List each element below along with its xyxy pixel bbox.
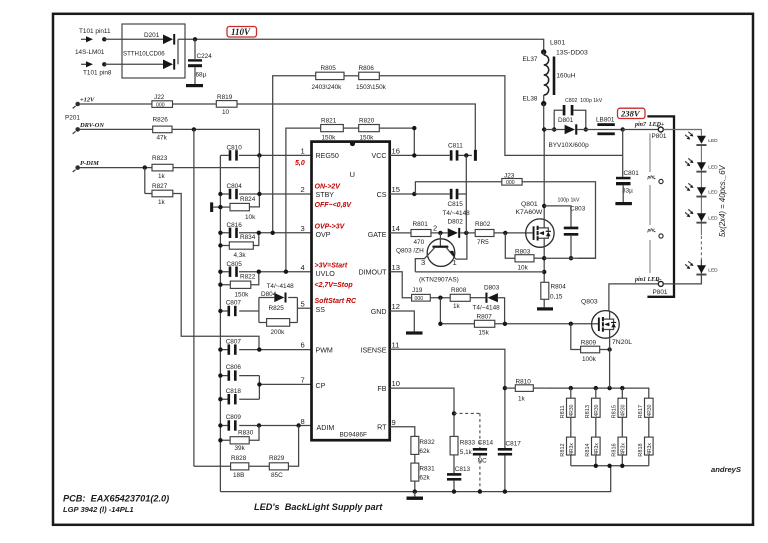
node EL38 bbox=[541, 101, 546, 106]
svg-text:R822: R822 bbox=[240, 273, 256, 280]
svg-text:1k: 1k bbox=[158, 173, 166, 180]
svg-text:12: 12 bbox=[392, 302, 400, 311]
svg-text:(KTN2907AS): (KTN2907AS) bbox=[419, 277, 459, 284]
svg-text:110V: 110V bbox=[231, 27, 251, 37]
svg-text:D803: D803 bbox=[484, 285, 500, 292]
resistor R804 bbox=[541, 282, 566, 300]
svg-text:C817: C817 bbox=[506, 440, 522, 447]
wire 110V rail bbox=[178, 39, 544, 52]
node EL37 bbox=[541, 49, 546, 54]
svg-text:1: 1 bbox=[301, 147, 305, 156]
svg-text:R830: R830 bbox=[238, 429, 254, 436]
capacitor C817 bbox=[498, 440, 521, 455]
wire SS pin bbox=[297, 307, 311, 309]
pin 5 SS bbox=[301, 299, 326, 313]
svg-text:STTH10LCD06: STTH10LCD06 bbox=[123, 51, 165, 58]
svg-text:NC: NC bbox=[478, 458, 488, 465]
svg-text:+12V: +12V bbox=[80, 97, 95, 104]
svg-text:2403\240k: 2403\240k bbox=[312, 84, 343, 91]
svg-text:T101 pin8: T101 pin8 bbox=[83, 70, 112, 77]
wire C806-C818 vertical bbox=[258, 376, 260, 400]
svg-text:C807: C807 bbox=[226, 300, 242, 307]
pin 13 DIMOUT bbox=[359, 263, 400, 277]
node R820 corner bbox=[412, 126, 416, 130]
svg-text:R827: R827 bbox=[152, 183, 168, 190]
svg-text:2: 2 bbox=[433, 224, 437, 233]
diode D802 bbox=[448, 218, 476, 238]
svg-text:Q803: Q803 bbox=[581, 299, 598, 306]
resistor R828 bbox=[194, 455, 249, 479]
capacitor plate +12V bbox=[474, 150, 477, 161]
node bottom center bbox=[607, 464, 611, 468]
svg-text:5,0: 5,0 bbox=[295, 160, 305, 167]
svg-text:150k: 150k bbox=[360, 134, 375, 141]
node source C803 bbox=[569, 256, 573, 260]
svg-text:K7A60W: K7A60W bbox=[516, 209, 543, 216]
svg-text:R801: R801 bbox=[413, 221, 429, 228]
node rail C817 bbox=[503, 489, 507, 493]
resistor R802 bbox=[475, 221, 494, 246]
svg-text:LED's BackLight Supply part: LED's BackLight Supply part bbox=[254, 502, 383, 512]
capacitor C811 bbox=[448, 143, 472, 161]
resistor R815 bbox=[612, 388, 627, 418]
P801 pin7 contact bbox=[657, 125, 664, 132]
svg-text:LED: LED bbox=[708, 138, 718, 144]
svg-text:RT: RT bbox=[377, 423, 387, 431]
svg-text:4R3x: 4R3x bbox=[594, 443, 600, 455]
svg-text:D801: D801 bbox=[558, 117, 574, 124]
svg-text:R807: R807 bbox=[477, 314, 493, 321]
contact mid2 bbox=[659, 234, 663, 238]
wire SS combo bars bbox=[259, 298, 298, 323]
wire R808 to D803 bbox=[470, 297, 485, 299]
svg-text:9: 9 bbox=[392, 418, 396, 427]
svg-text:STBY: STBY bbox=[316, 191, 335, 199]
svg-text:100k: 100k bbox=[582, 356, 597, 363]
diode D201 lower bbox=[163, 59, 175, 70]
svg-text:FB: FB bbox=[377, 385, 386, 393]
node Q803ZH base bbox=[438, 231, 442, 235]
svg-text:R820: R820 bbox=[359, 117, 375, 124]
svg-text:EL37: EL37 bbox=[523, 56, 538, 63]
svg-text:R823: R823 bbox=[152, 155, 168, 162]
svg-text:4R30: 4R30 bbox=[620, 404, 626, 416]
ground rail bbox=[220, 466, 610, 492]
ground bus vertical bbox=[219, 155, 221, 491]
svg-text:R825: R825 bbox=[269, 305, 285, 312]
svg-text:R813: R813 bbox=[585, 405, 591, 418]
resistor R824 bbox=[218, 196, 256, 221]
svg-text:R829: R829 bbox=[269, 455, 285, 462]
resistor R821 bbox=[321, 117, 344, 141]
capacitor C818 bbox=[218, 388, 259, 405]
node STBY bbox=[257, 192, 261, 196]
wire R807 to Q803 gate bbox=[495, 323, 592, 325]
svg-text:R821: R821 bbox=[321, 117, 337, 124]
capacitor C814 NC dashed bbox=[454, 413, 494, 491]
svg-text:OFF~<0,8V: OFF~<0,8V bbox=[315, 202, 353, 209]
node R810 isense bbox=[503, 386, 507, 390]
wire grid bottom rail bbox=[571, 465, 649, 467]
LED chain dashed part bbox=[700, 236, 702, 260]
svg-text:150k: 150k bbox=[322, 134, 337, 141]
wire ISENSE row bbox=[390, 349, 505, 491]
node emitter row bbox=[542, 270, 546, 274]
svg-text:1k: 1k bbox=[453, 303, 461, 310]
svg-text:8: 8 bbox=[301, 417, 305, 426]
ground symbol rail bbox=[407, 492, 424, 500]
svg-text:4: 4 bbox=[301, 263, 305, 272]
svg-text:10k: 10k bbox=[518, 265, 529, 272]
node grid c1 bbox=[569, 386, 573, 390]
node source row bbox=[542, 256, 546, 260]
wire R821-R820 bbox=[343, 127, 358, 129]
node OVP bbox=[271, 231, 275, 235]
svg-text:13S-DD03: 13S-DD03 bbox=[556, 50, 588, 57]
svg-text:11: 11 bbox=[392, 341, 400, 350]
resistor R806 bbox=[356, 65, 387, 91]
svg-text:5x(2x4) = 40pcs._6V: 5x(2x4) = 40pcs._6V bbox=[718, 164, 727, 237]
capacitor C813 bbox=[447, 466, 471, 491]
svg-text:P-DIM: P-DIM bbox=[80, 160, 99, 167]
svg-text:ISENSE: ISENSE bbox=[360, 346, 386, 354]
resistor R818 bbox=[638, 417, 653, 466]
wire R806 to 238V sense bbox=[379, 76, 622, 156]
LED D1 bbox=[685, 132, 718, 146]
capacitor C807 (SS) bbox=[218, 300, 259, 317]
svg-text:T4/~4148: T4/~4148 bbox=[473, 305, 501, 312]
capacitor C224 bbox=[188, 59, 202, 67]
pin 12 GND bbox=[371, 302, 400, 316]
capacitor C809 bbox=[218, 414, 311, 431]
wire T101 pin8 to diode bbox=[104, 63, 163, 65]
diode D201 upper bbox=[163, 34, 175, 45]
resistor R808 bbox=[450, 287, 470, 310]
svg-text:85C: 85C bbox=[271, 472, 283, 479]
wire J19 to R808 bbox=[430, 297, 450, 299]
node GATE C815 bbox=[464, 231, 468, 235]
terminal +12V bbox=[73, 97, 95, 109]
svg-text:C818: C818 bbox=[226, 388, 242, 395]
svg-text:PCB: EAX65423701(2.0): PCB: EAX65423701(2.0) bbox=[63, 494, 169, 504]
resistor R810 bbox=[505, 379, 545, 403]
svg-text:C809: C809 bbox=[226, 414, 242, 421]
wire R805-R806 bbox=[344, 75, 359, 77]
resistor R816 bbox=[612, 417, 627, 466]
pin 9 RT bbox=[377, 418, 396, 431]
wire joining cathodes bbox=[177, 39, 179, 64]
svg-text:10: 10 bbox=[222, 109, 230, 116]
node UVLO bbox=[284, 270, 288, 274]
svg-text:470: 470 bbox=[414, 239, 425, 246]
capacitor C807 (PWM) bbox=[218, 339, 311, 355]
node gate net bbox=[503, 322, 507, 326]
resistor R811 bbox=[560, 388, 575, 418]
svg-text:>3V=Start: >3V=Start bbox=[315, 262, 348, 269]
wire R831 to rail bbox=[414, 481, 416, 492]
svg-text:REG50: REG50 bbox=[316, 152, 339, 160]
node rail R831 bbox=[413, 489, 417, 493]
wire +12V to J22 bbox=[80, 103, 152, 105]
node rail C813 bbox=[452, 489, 456, 493]
svg-text:Q801: Q801 bbox=[521, 201, 538, 208]
mosfet Q803 7N20L bbox=[592, 311, 620, 339]
svg-text:SS: SS bbox=[316, 306, 326, 314]
capacitor C804 bbox=[218, 183, 311, 199]
wire R803 to source bbox=[534, 257, 544, 259]
wire DRV-ON to R826 bbox=[80, 128, 153, 130]
wire FB row bbox=[390, 388, 454, 436]
svg-text:62k: 62k bbox=[419, 474, 430, 481]
resistor R813 bbox=[585, 388, 600, 418]
resistor R831 bbox=[411, 463, 435, 481]
svg-text:150k: 150k bbox=[235, 292, 250, 299]
svg-text:andreyS: andreyS bbox=[711, 465, 741, 474]
LED D3 bbox=[685, 183, 718, 197]
svg-text:10: 10 bbox=[392, 379, 400, 388]
svg-text:T101 pin11: T101 pin11 bbox=[79, 28, 111, 35]
svg-text:LGP 3942 (l) -14PL1: LGP 3942 (l) -14PL1 bbox=[63, 505, 134, 514]
wire J22 to R819 bbox=[173, 103, 217, 105]
ferrite bead LB801 bbox=[597, 123, 622, 135]
wire R802 to Q801 gate bbox=[494, 232, 526, 234]
diode D803 bbox=[485, 293, 504, 324]
wire VCC pin row bbox=[390, 154, 450, 156]
wire T101 pin11 to diode bbox=[104, 38, 163, 40]
wire R801 to D802 bbox=[431, 232, 448, 234]
wire source row bbox=[544, 257, 595, 259]
svg-text:J22: J22 bbox=[154, 94, 165, 101]
resistor R814 bbox=[585, 417, 600, 466]
capacitor C802 bbox=[552, 105, 588, 132]
svg-text:DRV-ON: DRV-ON bbox=[79, 122, 104, 129]
svg-text:phĻ: phĻ bbox=[647, 175, 657, 180]
svg-text:L801: L801 bbox=[550, 40, 565, 47]
svg-text:R834: R834 bbox=[240, 234, 256, 241]
node VCC C815 branch bbox=[464, 153, 468, 157]
pin 8 ADIM bbox=[301, 417, 335, 432]
pin 1 REG50 bbox=[301, 147, 339, 160]
svg-text:BD9486F: BD9486F bbox=[340, 432, 367, 439]
capacitor C805 bbox=[218, 261, 311, 277]
svg-text:R815: R815 bbox=[612, 405, 618, 418]
node P-DIM split bbox=[143, 165, 147, 169]
svg-text:LED: LED bbox=[708, 165, 718, 171]
LED D4 bbox=[685, 209, 718, 223]
wire C803 top bbox=[544, 206, 571, 227]
T101 pin8 arrow bbox=[81, 61, 93, 67]
resistor R817 bbox=[638, 398, 653, 418]
svg-text:LED: LED bbox=[708, 216, 718, 222]
svg-text:GND: GND bbox=[371, 308, 387, 316]
wire CS up to J23 row bbox=[415, 182, 501, 194]
transistor Q803/ZH bbox=[396, 233, 467, 284]
svg-text:C813: C813 bbox=[455, 466, 471, 473]
svg-text:R819: R819 bbox=[217, 94, 233, 101]
resistor R812 bbox=[560, 417, 575, 466]
node grid c2 bbox=[594, 386, 598, 390]
IC U1 BD9486F box bbox=[312, 142, 390, 441]
node R809 source bbox=[607, 347, 611, 351]
resistor R834 bbox=[218, 231, 261, 259]
connector P801 bracket bbox=[647, 116, 674, 296]
capacitor C806 bbox=[218, 364, 259, 381]
wire sense grid top rail bbox=[545, 388, 649, 398]
svg-text:47k: 47k bbox=[157, 135, 168, 142]
node CS bbox=[412, 192, 416, 196]
resistor R822 bbox=[218, 270, 261, 299]
diode module D201 box bbox=[122, 24, 185, 78]
svg-text:UVLO: UVLO bbox=[316, 270, 336, 278]
resistor R801 bbox=[411, 221, 431, 246]
svg-text:3: 3 bbox=[301, 224, 305, 233]
node PWM / R827 bbox=[257, 347, 261, 351]
node gate R809 bbox=[569, 322, 573, 326]
ground GND pin bbox=[406, 331, 423, 334]
svg-text:4R30: 4R30 bbox=[594, 404, 600, 416]
svg-text:238V: 238V bbox=[620, 109, 641, 119]
pin 15 CS bbox=[377, 185, 400, 199]
svg-text:0,15: 0,15 bbox=[550, 294, 563, 301]
svg-text:C802 100p 1kV: C802 100p 1kV bbox=[565, 98, 603, 104]
node DRV-ON vertical bbox=[192, 127, 196, 131]
svg-text:R814: R814 bbox=[585, 443, 591, 456]
svg-text:7: 7 bbox=[301, 376, 305, 385]
svg-text:P201: P201 bbox=[65, 115, 80, 122]
node T101 pin8 bbox=[102, 62, 106, 66]
svg-text:Q803 /ZH: Q803 /ZH bbox=[396, 248, 424, 255]
wire C224 to ground bbox=[194, 67, 196, 84]
svg-text:P801: P801 bbox=[652, 133, 667, 140]
wire R827 to PWM route bbox=[145, 194, 259, 350]
svg-text:PWM: PWM bbox=[316, 346, 333, 354]
svg-text:LED: LED bbox=[708, 268, 718, 274]
svg-text:OVP->3V: OVP->3V bbox=[315, 223, 346, 230]
wire LED- return bbox=[609, 260, 702, 311]
svg-text:100p 1kV: 100p 1kV bbox=[558, 198, 580, 204]
pin 11 ISENSE bbox=[360, 341, 399, 355]
inductor L801 bbox=[544, 52, 576, 104]
wire REG50 vertical bbox=[249, 155, 259, 207]
svg-text:1k: 1k bbox=[518, 396, 526, 403]
capacitor C810 bbox=[220, 145, 311, 161]
wire to C224 bbox=[194, 39, 196, 59]
wire LED+ to P801 bbox=[623, 129, 702, 131]
svg-text:15k: 15k bbox=[479, 330, 490, 337]
pin 16 VCC bbox=[372, 147, 400, 160]
svg-text:R802: R802 bbox=[475, 221, 491, 228]
wire RT to R832 bbox=[390, 427, 415, 437]
pin 7 CP bbox=[301, 376, 326, 390]
node ADIM-R829 bbox=[296, 423, 300, 427]
svg-text:4R30: 4R30 bbox=[569, 404, 575, 416]
IC top pin mark bbox=[350, 141, 355, 146]
wire Q803ZH emitter row bbox=[415, 271, 544, 273]
svg-text:15: 15 bbox=[392, 185, 400, 194]
svg-text:C814: C814 bbox=[478, 439, 494, 446]
ground C224 bbox=[186, 84, 203, 87]
svg-text:LED: LED bbox=[708, 190, 718, 196]
wire C801 drop bbox=[622, 130, 624, 177]
node bottom c3 bbox=[620, 464, 624, 468]
pin 2 STBY bbox=[301, 185, 335, 199]
resistor R807 bbox=[474, 314, 494, 337]
node LED+ rail bbox=[621, 127, 625, 131]
resistor R803 bbox=[515, 249, 534, 272]
svg-text:R826: R826 bbox=[153, 117, 169, 124]
wire Q801 drain vertical bbox=[543, 130, 545, 220]
svg-text:1503\150k: 1503\150k bbox=[356, 84, 387, 91]
node FB branch bbox=[452, 411, 456, 415]
jumper J23 bbox=[502, 172, 522, 186]
svg-text:R831: R831 bbox=[419, 465, 435, 472]
svg-text:C811: C811 bbox=[448, 143, 463, 150]
node T101 pin11 bbox=[102, 37, 106, 41]
svg-text:14S-LM01: 14S-LM01 bbox=[75, 49, 105, 56]
svg-text:SoftStart RC: SoftStart RC bbox=[315, 298, 358, 305]
svg-text:OVP: OVP bbox=[316, 231, 331, 239]
svg-text:R817: R817 bbox=[638, 405, 644, 418]
svg-text:R828: R828 bbox=[231, 455, 247, 462]
wire C815 vertical bbox=[465, 155, 467, 194]
svg-text:4R3x: 4R3x bbox=[647, 443, 653, 455]
pin 4 UVLO bbox=[301, 263, 336, 278]
LED D5 bbox=[685, 261, 718, 275]
svg-text:U: U bbox=[350, 170, 355, 179]
jumper J19 bbox=[412, 287, 431, 302]
svg-text:68µ: 68µ bbox=[196, 72, 207, 79]
svg-text:C803: C803 bbox=[570, 206, 586, 213]
svg-text:D201: D201 bbox=[144, 32, 160, 39]
resistor R819 bbox=[216, 94, 237, 116]
P801 pin1 contact bbox=[657, 280, 664, 287]
svg-text:C815: C815 bbox=[448, 201, 464, 208]
svg-text:000: 000 bbox=[506, 180, 515, 186]
svg-text:4R3x: 4R3x bbox=[620, 443, 626, 455]
contact mid1 bbox=[659, 179, 663, 183]
node VCC R820 bbox=[412, 153, 416, 157]
resistor R830 bbox=[218, 426, 259, 453]
node bottom c2 bbox=[594, 464, 598, 468]
svg-text:18B: 18B bbox=[233, 472, 244, 479]
resistor R820 bbox=[359, 117, 380, 141]
node rail C814 bbox=[478, 489, 482, 493]
svg-text:LB801: LB801 bbox=[596, 117, 615, 124]
wire LED chain top bbox=[663, 130, 701, 136]
svg-text:3: 3 bbox=[421, 258, 425, 267]
svg-text:ON->2V: ON->2V bbox=[315, 183, 342, 190]
wire R826 to vertical bbox=[172, 129, 259, 155]
resistor R826 bbox=[153, 117, 173, 142]
resistor R827 bbox=[152, 183, 173, 206]
wire R820 to VCC bbox=[379, 128, 414, 155]
node gate R803 bbox=[503, 231, 507, 235]
LED chain spine bbox=[700, 146, 702, 235]
wire GND pin bbox=[390, 311, 415, 331]
svg-text:7N20L: 7N20L bbox=[612, 339, 632, 346]
svg-text:C801: C801 bbox=[624, 170, 640, 177]
svg-text:4R3x: 4R3x bbox=[569, 443, 575, 455]
svg-text:7R5: 7R5 bbox=[477, 239, 489, 246]
wire R832-R831 bbox=[414, 454, 416, 463]
svg-text:EL38: EL38 bbox=[523, 96, 538, 103]
wire R819 to VCC cap plate bbox=[237, 104, 475, 150]
resistor R825 bbox=[259, 305, 298, 336]
wire EL38 down to D801 bbox=[543, 104, 545, 130]
svg-text:10k: 10k bbox=[245, 214, 256, 221]
node ADIM-R830 bbox=[257, 423, 261, 427]
diode D801 bbox=[544, 124, 597, 134]
